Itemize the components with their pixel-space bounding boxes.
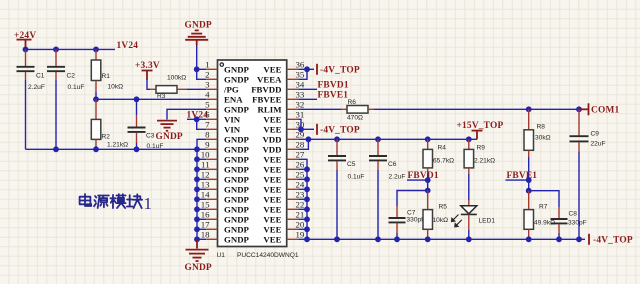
wire pin9 to GNDP bus xyxy=(197,148,206,150)
node junction C1 top xyxy=(23,47,29,53)
svg-text:GNDP: GNDP xyxy=(156,132,183,142)
svg-text:VEE: VEE xyxy=(263,184,281,194)
svg-text:10: 10 xyxy=(201,150,210,160)
wire RLIM net long xyxy=(374,108,579,110)
svg-text:VEE: VEE xyxy=(263,224,281,234)
power port +24V xyxy=(14,31,36,50)
node junction R8 top xyxy=(526,106,532,112)
node junction pin1 xyxy=(194,66,200,72)
svg-text:470Ω: 470Ω xyxy=(347,115,363,122)
svg-text:GNDP: GNDP xyxy=(224,154,250,164)
power port +3.3V xyxy=(135,61,160,80)
pin 7 VIN left stub xyxy=(205,120,241,135)
node junction pin25 xyxy=(304,176,310,182)
net label FBVD1 at R4 xyxy=(408,171,439,181)
wire pin25 to VEE bus xyxy=(298,178,307,180)
svg-text:R9: R9 xyxy=(477,145,486,152)
net label FBVE1 pin33 xyxy=(318,91,349,101)
svg-text:11: 11 xyxy=(201,160,209,170)
capacitor C2 0.1uF xyxy=(47,49,84,91)
svg-text:-4V_TOP: -4V_TOP xyxy=(320,126,360,136)
svg-text:R7: R7 xyxy=(539,204,548,211)
svg-text:VEE: VEE xyxy=(263,154,281,164)
svg-text:0.1uF: 0.1uF xyxy=(68,84,85,91)
wire ENA net xyxy=(96,98,206,100)
svg-text:GNDP: GNDP xyxy=(224,144,250,154)
wire pin15 to GNDP bus xyxy=(197,208,206,210)
svg-text:U1: U1 xyxy=(217,252,226,259)
svg-text:9: 9 xyxy=(205,140,210,150)
diode LED1 xyxy=(452,174,496,230)
wire pin21 to VEE bus xyxy=(298,218,307,220)
wire C7 branch xyxy=(397,191,428,207)
svg-text:27: 27 xyxy=(296,150,305,160)
svg-text:330pF: 330pF xyxy=(568,220,587,227)
pin 12 GNDP left stub xyxy=(201,170,250,185)
svg-text:2: 2 xyxy=(205,70,209,80)
ground GNDP bottom xyxy=(185,239,212,273)
power port -4V_TOP pin36 xyxy=(317,64,360,76)
svg-text:31: 31 xyxy=(296,110,305,120)
pin 23 VEE right stub xyxy=(263,190,304,205)
pin 35 VEEA right stub xyxy=(257,70,305,85)
pin 3 /PG left stub xyxy=(205,80,239,95)
svg-text:1: 1 xyxy=(144,194,153,213)
wire 1V24 to VIN pins 6,7 xyxy=(187,119,206,129)
svg-text:GNDP: GNDP xyxy=(224,234,250,244)
wire C1 bottom xyxy=(25,80,27,149)
svg-text:VDD: VDD xyxy=(262,144,281,154)
title text 电源模块1 (hand-drawn strokes) xyxy=(80,194,143,208)
svg-text:13: 13 xyxy=(201,180,210,190)
svg-text:ENA: ENA xyxy=(224,94,243,104)
svg-text:0.1uF: 0.1uF xyxy=(348,174,365,181)
wire FBVE1 stub xyxy=(506,179,529,181)
wire C8 bottom xyxy=(558,233,560,239)
node junction FBVD1 xyxy=(425,177,431,183)
node junction pin11 xyxy=(194,166,200,172)
svg-text:25: 25 xyxy=(296,170,305,180)
ground GNDP pin5 xyxy=(156,109,207,142)
svg-text:FBVEE: FBVEE xyxy=(252,94,281,104)
pin 1 GNDP left stub xyxy=(205,60,249,75)
resistor R1 10k xyxy=(91,49,123,92)
svg-text:+3.3V: +3.3V xyxy=(135,61,160,71)
wire C5 bottom xyxy=(336,170,338,239)
pin 14 GNDP left stub xyxy=(201,190,250,205)
node junction pin29 xyxy=(306,136,312,142)
wire FBVD1 pin34 xyxy=(298,88,317,90)
capacitor C3 0.1uF xyxy=(128,99,164,150)
wire pin14 to GNDP bus xyxy=(197,198,206,200)
svg-text:15: 15 xyxy=(201,200,210,210)
svg-text:GNDP: GNDP xyxy=(224,224,250,234)
svg-text:32: 32 xyxy=(296,100,305,110)
op-amp U1 PUCC14240DWNQ1 IC body xyxy=(218,60,287,247)
svg-text:17: 17 xyxy=(201,220,210,230)
svg-text:GNDP: GNDP xyxy=(224,134,250,144)
power port -4V_TOP bottom xyxy=(589,234,633,246)
node junction pin22 xyxy=(304,206,310,212)
node junction C3 top xyxy=(134,96,140,102)
resistor R3 100k xyxy=(150,75,187,101)
svg-text:21: 21 xyxy=(296,210,305,220)
wire FBVD1 stub xyxy=(407,174,428,191)
pin 32 RLIM right stub xyxy=(258,100,305,115)
wire VDD rail pins 29/28 xyxy=(298,139,477,149)
net label 1V24 pin6 xyxy=(187,111,209,121)
node junction C8 branch xyxy=(526,188,532,194)
wire R1 bottom to ENA node xyxy=(95,92,97,99)
wire RLIM to R6 xyxy=(298,108,341,110)
svg-text:28: 28 xyxy=(296,140,305,150)
resistor R4 65.7k xyxy=(423,139,454,174)
svg-text:PUCC14240DWNQ1: PUCC14240DWNQ1 xyxy=(237,252,299,259)
svg-text:-4V_TOP: -4V_TOP xyxy=(593,236,633,246)
title digit 1 xyxy=(144,194,153,213)
net label 1V24 xyxy=(117,41,139,51)
svg-text:R6: R6 xyxy=(348,99,357,106)
node junction R1/R2/ENA xyxy=(93,96,99,102)
pin 20 VEE right stub xyxy=(263,220,304,235)
resistor R2 1.21k xyxy=(91,99,128,148)
node junction pin23 xyxy=(304,196,310,202)
node junction pin21 xyxy=(304,216,310,222)
wire pin16 to GNDP bus xyxy=(197,218,206,220)
svg-text:FBVD1: FBVD1 xyxy=(318,81,349,91)
pin 17 GNDP left stub xyxy=(201,220,250,235)
resistor R7 49.9k xyxy=(524,191,555,238)
node junction C2 top xyxy=(53,47,59,53)
svg-text:R8: R8 xyxy=(537,124,546,131)
svg-text:GNDP: GNDP xyxy=(224,104,250,114)
svg-text:6: 6 xyxy=(205,110,210,120)
svg-text:GNDP: GNDP xyxy=(224,214,250,224)
svg-text:14: 14 xyxy=(201,190,210,200)
svg-text:22: 22 xyxy=(296,200,305,210)
svg-text:VIN: VIN xyxy=(224,114,241,124)
svg-text:4: 4 xyxy=(205,90,210,100)
svg-text:1.21kΩ: 1.21kΩ xyxy=(107,142,128,149)
pin 2 GNDP left stub xyxy=(205,70,249,85)
svg-text:1V24: 1V24 xyxy=(117,41,139,51)
pin 28 VDD right stub xyxy=(262,140,304,155)
node junction R2 bottom xyxy=(93,146,99,152)
pin 11 GNDP left stub xyxy=(201,160,250,175)
pin 21 VEE right stub xyxy=(263,210,304,225)
net label FBVD1 pin34 xyxy=(318,81,349,91)
node junction pin20 xyxy=(304,226,310,232)
svg-text:/PG: /PG xyxy=(223,84,239,94)
pin 27 VEE right stub xyxy=(263,150,304,165)
svg-text:C7: C7 xyxy=(407,210,416,217)
node junction R7 bottom xyxy=(526,236,532,242)
node junction R5 bottom xyxy=(425,236,431,242)
wire right VEE vertical bus pins 27-19 xyxy=(298,159,307,239)
capacitor C6 2.2uF xyxy=(369,136,405,180)
svg-text:33: 33 xyxy=(296,90,305,100)
wire pin31 to pin30 xyxy=(298,119,301,129)
wire C9 bottom xyxy=(578,152,580,239)
resistor R8 30k xyxy=(524,109,551,157)
node junction pin30 xyxy=(298,126,304,132)
pin 24 VEE right stub xyxy=(263,180,304,195)
pin 15 GNDP left stub xyxy=(201,200,250,215)
svg-text:5: 5 xyxy=(205,100,210,110)
svg-text:GNDP: GNDP xyxy=(224,204,250,214)
svg-text:R4: R4 xyxy=(438,145,447,152)
pin 26 VEE right stub xyxy=(263,160,304,175)
wire C2 bottom xyxy=(55,80,57,149)
svg-text:18: 18 xyxy=(201,230,210,240)
svg-text:C6: C6 xyxy=(388,161,397,168)
pin 6 VIN left stub xyxy=(205,110,241,125)
wire pin26 to VEE bus xyxy=(298,168,307,170)
U1 designator and part number xyxy=(217,252,299,259)
capacitor C1 2.2uF xyxy=(17,49,45,91)
power port +15V_TOP xyxy=(457,121,504,139)
svg-text:VEE: VEE xyxy=(263,64,281,74)
wire pin12 to GNDP bus xyxy=(197,178,206,180)
svg-text:VEE: VEE xyxy=(263,164,281,174)
wire C6 bottom xyxy=(377,170,379,239)
node junction R4 top xyxy=(425,136,431,142)
svg-text:12: 12 xyxy=(201,170,210,180)
svg-text:36: 36 xyxy=(296,60,305,70)
node junction pin18 xyxy=(194,236,200,242)
svg-text:GNDP: GNDP xyxy=(185,21,212,31)
node junction pin9 xyxy=(194,146,200,152)
wire pin23 to VEE bus xyxy=(298,198,307,200)
svg-text:FBVDD: FBVDD xyxy=(251,84,281,94)
node junction pin6 xyxy=(194,116,200,122)
wire pin10 to GNDP bus xyxy=(197,158,206,160)
wire 1V24 top rail xyxy=(26,48,116,50)
svg-text:R3: R3 xyxy=(157,93,166,100)
svg-text:10kΩ: 10kΩ xyxy=(433,217,449,224)
wire R7 bottom xyxy=(528,238,530,240)
node junction pin10 xyxy=(194,156,200,162)
wire C7 bottom xyxy=(396,233,398,239)
svg-text:C9: C9 xyxy=(591,131,600,138)
wire pin20 to VEE bus xyxy=(298,228,307,230)
svg-text:VEE: VEE xyxy=(263,204,281,214)
node junction C3 bottom xyxy=(134,146,140,152)
wire pin17 to GNDP bus xyxy=(197,228,206,230)
svg-text:GNDP: GNDP xyxy=(224,184,250,194)
pin 4 ENA left stub xyxy=(205,90,243,105)
wire pin11 to GNDP bus xyxy=(197,168,206,170)
node junction R9 top xyxy=(466,136,472,142)
svg-text:3: 3 xyxy=(205,80,210,90)
svg-text:19: 19 xyxy=(296,230,305,240)
node junction pin24 xyxy=(304,186,310,192)
svg-text:22uF: 22uF xyxy=(591,141,606,148)
pin 10 GNDP left stub xyxy=(201,150,250,165)
wire pin36/35 VEE xyxy=(298,69,314,79)
wire C3 bottom xyxy=(136,143,138,149)
svg-text:C1: C1 xyxy=(36,73,45,80)
wire bottom -4V bus xyxy=(298,238,585,240)
svg-text:VEE: VEE xyxy=(263,114,281,124)
svg-text:8: 8 xyxy=(205,130,210,140)
node junction pin14 xyxy=(194,196,200,202)
svg-text:-4V_TOP: -4V_TOP xyxy=(320,66,360,76)
svg-text:VEE: VEE xyxy=(263,194,281,204)
svg-text:GNDP: GNDP xyxy=(224,174,250,184)
svg-text:C8: C8 xyxy=(569,211,578,218)
svg-text:GNDP: GNDP xyxy=(224,74,250,84)
svg-text:26: 26 xyxy=(296,160,305,170)
wire ground bus left xyxy=(26,148,198,150)
node junction LED1 bottom xyxy=(466,236,472,242)
svg-text:35: 35 xyxy=(296,70,305,80)
svg-text:16: 16 xyxy=(201,210,210,220)
svg-text:R2: R2 xyxy=(102,134,111,141)
svg-text:VEE: VEE xyxy=(263,214,281,224)
svg-text:C2: C2 xyxy=(67,73,76,80)
svg-text:VEEA: VEEA xyxy=(257,74,282,84)
wire C8 branch xyxy=(529,191,559,207)
pin 16 GNDP left stub xyxy=(201,210,250,225)
node junction C7 branch xyxy=(425,188,431,194)
wire FBVE1 pin33 xyxy=(298,98,317,100)
svg-text:100kΩ: 100kΩ xyxy=(167,75,186,82)
pin 30 VEE right stub xyxy=(263,120,304,135)
svg-text:24: 24 xyxy=(296,180,305,190)
pin 13 GNDP left stub xyxy=(201,180,250,195)
svg-text:VEE: VEE xyxy=(263,174,281,184)
svg-text:23: 23 xyxy=(296,190,305,200)
node junction R1 top xyxy=(93,47,99,53)
node junction pin17 xyxy=(194,226,200,232)
pin 33 FBVEE right stub xyxy=(252,90,305,105)
pin 31 VEE right stub xyxy=(263,110,304,125)
svg-text:34: 34 xyxy=(296,80,305,90)
pin 34 FBVDD right stub xyxy=(251,80,305,95)
node junction pin36 xyxy=(304,66,310,72)
node junction COM1 xyxy=(576,106,582,112)
node junction pin13 xyxy=(194,186,200,192)
capacitor C8 330pF xyxy=(551,207,587,233)
svg-text:2.21kΩ: 2.21kΩ xyxy=(474,158,495,165)
pin 25 VEE right stub xyxy=(263,170,304,185)
svg-text:COM1: COM1 xyxy=(591,106,620,116)
node junction pin15 xyxy=(194,206,200,212)
wire R3 to pin3 xyxy=(187,88,207,90)
svg-text:20: 20 xyxy=(296,220,305,230)
node junction C5 bottom xyxy=(334,236,340,242)
wire pin24 to VEE bus xyxy=(298,188,307,190)
net label FBVE1 at R8 xyxy=(507,171,538,181)
wire GNDP top to pin1/pin2 xyxy=(197,45,207,79)
svg-text:VEE: VEE xyxy=(263,234,281,244)
pin 22 VEE right stub xyxy=(263,200,304,215)
svg-text:2.2uF: 2.2uF xyxy=(28,84,45,91)
node junction C8 bottom xyxy=(556,236,562,242)
svg-text:R5: R5 xyxy=(439,204,448,211)
capacitor C5 0.1uF xyxy=(328,136,364,180)
capacitor C9 22uF xyxy=(570,109,606,152)
wire pin18 to GNDP bus xyxy=(197,238,206,240)
svg-text:LED1: LED1 xyxy=(479,218,496,225)
pin 19 VEE right stub xyxy=(263,230,304,245)
pin 5 GNDP left stub xyxy=(205,100,249,115)
node junction pin16 xyxy=(194,216,200,222)
svg-text:RLIM: RLIM xyxy=(258,104,283,114)
node junction pin12 xyxy=(194,176,200,182)
svg-text:C3: C3 xyxy=(146,133,155,140)
svg-text:1: 1 xyxy=(205,60,209,70)
power port COM1 xyxy=(579,103,620,115)
node junction FBVE1 xyxy=(526,177,532,183)
svg-text:10kΩ: 10kΩ xyxy=(108,84,124,91)
svg-text:GNDP: GNDP xyxy=(185,263,212,273)
wire R2 bottom xyxy=(95,146,97,149)
node junction C9 bottom xyxy=(576,236,582,242)
wire pin13 to GNDP bus xyxy=(197,188,206,190)
node junction pin26 xyxy=(304,166,310,172)
node junction C2 bottom xyxy=(53,146,59,152)
svg-text:30kΩ: 30kΩ xyxy=(535,135,551,142)
wire pin22 to VEE bus xyxy=(298,208,307,210)
svg-text:VDD: VDD xyxy=(262,134,281,144)
svg-text:GNDP: GNDP xyxy=(224,194,250,204)
pin 29 VDD right stub xyxy=(262,130,304,145)
pin 8 GNDP left stub xyxy=(205,130,249,145)
pin 36 VEE right stub xyxy=(263,60,304,75)
resistor R6 470 xyxy=(341,99,374,122)
pin 9 GNDP left stub xyxy=(205,140,249,155)
power port -4V_TOP pin30 xyxy=(317,124,360,136)
svg-text:VIN: VIN xyxy=(224,124,241,134)
svg-text:7: 7 xyxy=(205,120,210,130)
capacitor C7 330pF xyxy=(389,206,426,233)
svg-text:VEE: VEE xyxy=(263,124,281,134)
ground GNDP top xyxy=(185,21,212,46)
svg-text:GNDP: GNDP xyxy=(224,164,250,174)
pin 18 GNDP left stub xyxy=(201,230,250,245)
svg-text:+15V_TOP: +15V_TOP xyxy=(457,121,504,131)
svg-text:GNDP: GNDP xyxy=(224,64,250,74)
wire left GNDP vertical bus xyxy=(197,139,206,239)
svg-text:65.7kΩ: 65.7kΩ xyxy=(433,158,454,165)
resistor R5 10k xyxy=(423,191,448,238)
svg-text:FBVE1: FBVE1 xyxy=(318,91,349,101)
svg-text:C5: C5 xyxy=(347,161,356,168)
svg-text:R1: R1 xyxy=(102,73,111,80)
wire R8 bottom to FBVE1 xyxy=(528,157,530,191)
wire LED1 bottom xyxy=(468,230,470,239)
svg-text:2.2uF: 2.2uF xyxy=(389,174,406,181)
node junction C7 bottom xyxy=(394,236,400,242)
wire pin30 to -4V_TOP xyxy=(298,128,314,130)
node junction C6 bottom xyxy=(375,236,381,242)
node junction pin19 xyxy=(304,236,310,242)
wire +3.3V to R3 xyxy=(147,80,150,89)
wire R5 bottom xyxy=(427,238,429,240)
resistor R9 2.21k xyxy=(464,139,495,174)
